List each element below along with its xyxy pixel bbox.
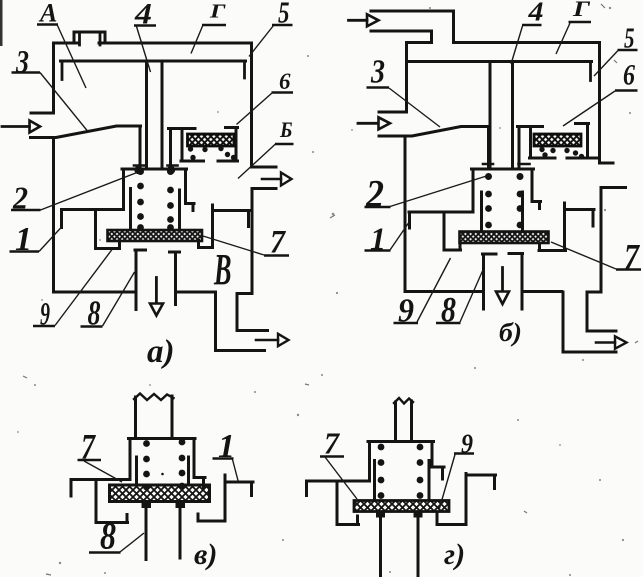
outlet walls below disc (381, 514, 419, 577)
check valve left outer wall / nozzle right wall (169, 129, 172, 169)
side outlet port B lower lip (252, 187, 276, 190)
nozzle foot caps (134, 164, 178, 167)
svg-text:В: В (213, 245, 231, 294)
underline 1b (365, 249, 391, 251)
check valve 6 disc (b) (534, 134, 581, 146)
outlet port caps (483, 252, 523, 256)
leader 7 (b) (551, 242, 616, 269)
cage spring dots left column (g) (378, 444, 385, 499)
underline 1v (213, 457, 234, 459)
check valve 6 left cap (518, 125, 543, 128)
svg-text:А: А (38, 0, 57, 28)
outlet wall top blobs (g) (376, 512, 385, 518)
stem with break (136, 396, 173, 438)
top inlet arrow head (367, 14, 379, 26)
leader 7 (203, 236, 264, 255)
check valve 6 right outer wall (586, 124, 589, 158)
svg-text:6: 6 (623, 59, 635, 92)
side port lower lip (601, 186, 626, 189)
leader 3 (40, 73, 88, 132)
funnel lower wall (379, 127, 489, 137)
down arrow through port shaft (155, 278, 158, 304)
leader G (191, 25, 203, 54)
check valve 6 left bottom (530, 157, 556, 160)
cage left wall (368, 442, 371, 482)
svg-text:4: 4 (527, 0, 543, 27)
left inlet arrow head (379, 117, 391, 129)
cage inner guide right (428, 461, 431, 501)
right seat pocket (539, 203, 566, 251)
svg-text:в): в) (194, 538, 217, 571)
underline 1 (10, 250, 40, 252)
spring cage top (122, 168, 187, 171)
left step shelf with lip (62, 210, 124, 228)
leader 2 (41, 173, 138, 211)
housing bottom wall (55, 291, 216, 294)
down arrow head (496, 292, 509, 305)
cage inner guide right (178, 190, 181, 228)
cage inner guide left (480, 192, 483, 232)
leader 6 (237, 93, 273, 125)
underline 9b (394, 322, 419, 324)
svg-text:4: 4 (134, 0, 152, 31)
stem 4 (147, 63, 163, 169)
check valve 6 right cap (576, 122, 589, 125)
underline 7b (616, 268, 641, 270)
leader 4 (137, 27, 151, 73)
leader 9 (b) (417, 258, 451, 322)
underline 8v (89, 551, 121, 553)
leader A (57, 25, 86, 89)
stem 4 (490, 63, 513, 168)
svg-text:7: 7 (624, 237, 641, 277)
svg-text:1: 1 (218, 428, 235, 465)
svg-text:5: 5 (624, 23, 635, 55)
stem break squiggle (394, 398, 413, 404)
check valve 6 left inner wall (181, 129, 184, 160)
housing bottom wall (405, 290, 562, 293)
bottom outlet arrow shaft (256, 339, 278, 342)
underline 8b (436, 322, 461, 324)
valve disc 7 (g) (354, 501, 449, 512)
underline 6 (272, 91, 294, 93)
cage spring dots left column (137, 168, 144, 231)
outlet wall top blobs (v) (142, 503, 152, 509)
leader B(chamber) (238, 144, 276, 179)
left seat pocket (444, 212, 461, 250)
cage spring dots right column (167, 168, 174, 231)
nozzle left wall (487, 127, 490, 169)
leader 9 (55, 250, 112, 326)
check valve left outer wall / nozzle right wall (518, 127, 521, 169)
membrane line end ticks (62, 61, 245, 80)
left inlet arrow shaft (358, 122, 378, 125)
cage right wall and mini step (432, 442, 444, 480)
valve disc 7 (b) (460, 232, 549, 244)
svg-text:7: 7 (81, 427, 97, 467)
check valve 6 left cap (169, 127, 196, 130)
svg-text:2: 2 (365, 173, 384, 216)
svg-text:1: 1 (370, 221, 386, 257)
cage spring dots right column (g) (417, 444, 424, 499)
check valve 6 left inner wall (529, 127, 532, 157)
valve disc 7 (108, 230, 203, 241)
scan edge artifact (0, 0, 3, 46)
spring cage top (472, 168, 534, 171)
underline 2b (365, 206, 391, 208)
check valve 6 disc (188, 134, 235, 146)
left step shelf with lip (307, 481, 370, 496)
cage top (368, 440, 434, 443)
cage inner guide right (187, 457, 190, 484)
underline 5 (272, 24, 293, 26)
valve disc 7 (v) (110, 485, 210, 502)
svg-text:3: 3 (370, 54, 385, 91)
leader 2 (b) (390, 176, 487, 207)
leader G (b) (556, 23, 570, 54)
underline 6b (615, 89, 638, 91)
left step shelf with lip (409, 212, 473, 228)
svg-text:Г: Г (572, 0, 591, 21)
leader 8 (v) (120, 533, 144, 552)
cage spring dots right column (v) (161, 439, 185, 490)
left step shelf with lip (71, 480, 130, 497)
underline 9 (33, 325, 55, 327)
underline 7g (320, 455, 344, 457)
svg-text:7: 7 (270, 225, 286, 261)
right step shelf with lip (466, 475, 496, 489)
svg-text:Б: Б (279, 117, 292, 142)
svg-text:9: 9 (398, 293, 414, 330)
nozzle foot caps (b) (483, 163, 530, 166)
cage right wall and mini step (194, 439, 205, 489)
svg-text:а): а) (147, 334, 175, 370)
leader 9 (g) (439, 455, 455, 511)
stem with break (396, 401, 412, 440)
svg-text:б): б) (499, 318, 522, 347)
cage inner guide left (129, 189, 132, 229)
housing right wall lower (237, 189, 268, 331)
leader 6 (b) (563, 91, 615, 126)
underline 3b (367, 86, 390, 88)
underline 9g (454, 452, 474, 454)
underline 7 (264, 254, 289, 256)
cage inner guide right (521, 192, 524, 232)
svg-text:3: 3 (15, 45, 29, 81)
inlet arrow head (30, 121, 41, 133)
underline 2 (11, 209, 41, 211)
leader 8 (b) (460, 271, 483, 322)
bottom outlet channel lower path (563, 292, 616, 352)
svg-text:8: 8 (100, 516, 116, 558)
left seat pocket (337, 481, 359, 525)
cage inner guide left (135, 457, 138, 484)
svg-text:9: 9 (40, 297, 50, 333)
svg-text:7: 7 (324, 426, 340, 461)
membrane top line (408, 60, 592, 63)
right seat pocket (198, 475, 225, 521)
underline G (202, 24, 226, 26)
junction blobs at stem base (134, 166, 175, 174)
spring cage left wall (122, 169, 125, 210)
housing left wall upper (405, 43, 408, 111)
svg-text:2: 2 (12, 180, 28, 216)
leader 5 (249, 26, 274, 57)
right seat pocket (437, 474, 466, 525)
check valve spring dots (188, 146, 236, 160)
nozzle left wall (139, 126, 142, 169)
cage inner guide left (373, 461, 376, 501)
outlet arrow B head (281, 173, 292, 186)
stem break squiggle (134, 394, 174, 401)
inlet lower wall and funnel slant (31, 126, 141, 138)
top inlet channel upper wall (371, 11, 454, 43)
outlet port walls (484, 254, 523, 310)
left inlet step (379, 111, 407, 114)
cage left wall (129, 439, 132, 480)
check valve 6 right bottom (218, 160, 238, 163)
housing right wall upper (250, 43, 253, 167)
svg-text:9: 9 (461, 429, 473, 459)
housing left wall upper (31, 43, 54, 113)
right step shelf with lip (226, 482, 253, 496)
check valve 6 right outer wall (235, 128, 238, 161)
leader 3 (b) (389, 88, 440, 127)
cage spring dots left column (v) (143, 440, 150, 490)
leader 1 (v) (233, 460, 239, 481)
housing top wall right part (454, 41, 600, 44)
left seat pocket (96, 480, 128, 523)
bottom outlet arrow head (278, 334, 289, 346)
housing top wall with breather notch (54, 32, 252, 43)
leader 1 (39, 226, 63, 252)
underline 3 (12, 71, 41, 73)
underline 8 (81, 325, 103, 327)
housing right wall upper (598, 43, 601, 164)
outlet walls below disc (146, 503, 180, 560)
check valve 6 right cap (226, 126, 238, 129)
right seat pocket (199, 205, 213, 248)
bottom outlet arrow shaft (596, 341, 615, 344)
svg-text:6: 6 (279, 69, 291, 94)
svg-text:5: 5 (278, 0, 290, 30)
left seat pocket (96, 210, 120, 249)
underline 7v (78, 459, 102, 461)
cage spring dots right column (b) (517, 173, 524, 228)
leader 1 (b) (390, 223, 409, 250)
svg-text:Г: Г (209, 1, 227, 23)
housing top wall left part (407, 41, 432, 44)
underline Bch (275, 143, 294, 145)
membrane top line (61, 60, 246, 63)
spring cage right wall and mini step (532, 169, 541, 209)
underline 5b (618, 49, 638, 51)
right step shelf with lip (213, 211, 250, 227)
bottom outlet channel lower path (216, 292, 265, 351)
side outlet port B upper lip (252, 166, 277, 169)
housing right wall lower (587, 188, 616, 332)
svg-text:8: 8 (88, 294, 101, 333)
down arrow head (150, 304, 163, 316)
right step shelf with lip (566, 210, 595, 227)
outlet port caps (135, 250, 180, 252)
underline A (37, 23, 58, 25)
down arrow through port shaft (501, 268, 504, 292)
spring cage right wall and mini step (186, 169, 195, 211)
check valve 6 right bottom (567, 157, 599, 160)
leader 8 (103, 272, 135, 326)
breather notch inner ticks (80, 34, 101, 46)
svg-text:8: 8 (441, 290, 456, 330)
membrane line right tick (589, 62, 592, 81)
leader 5 (b) (594, 51, 618, 77)
cage spring dots left column (b) (485, 173, 492, 228)
leader 7 (v) (84, 461, 122, 482)
outlet arrow B shaft (262, 178, 281, 181)
underline 4b (522, 24, 542, 26)
outlet port walls (136, 250, 176, 310)
svg-text:г): г) (444, 538, 465, 571)
spring cage left wall (472, 169, 475, 211)
underline Gb (569, 21, 592, 23)
cage top (129, 437, 196, 440)
leader 7 (g) (325, 457, 357, 499)
inlet arrow shaft (2, 125, 30, 128)
side port upper lip (600, 162, 614, 165)
top inlet arrow shaft (349, 19, 368, 22)
bottom outlet arrow head (615, 336, 627, 348)
check valve 6 left bottom (181, 160, 204, 163)
housing left wall lower (404, 136, 407, 292)
housing left wall lower (52, 138, 55, 293)
top inlet channel lower wall (371, 31, 432, 43)
leader 4 (b) (511, 26, 523, 64)
underline 4 (134, 24, 156, 26)
check valve spring dots (b) (539, 147, 584, 159)
svg-text:1: 1 (15, 221, 32, 258)
